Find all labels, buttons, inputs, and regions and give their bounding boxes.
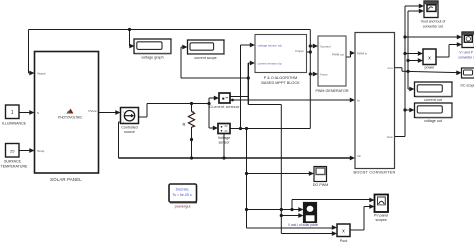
wire: Pout out to PV panel scope in2 <box>350 229 364 231</box>
svg-text:BOOST CONVERTER: BOOST CONVERTER <box>354 170 396 175</box>
converter out scope block top right <box>424 1 438 18</box>
resistor R zigzag <box>188 112 194 128</box>
wire: to PV panel scope in1 <box>292 199 370 201</box>
wire: power out to V-I-P scope in2 <box>436 56 449 58</box>
wire: P&O Vmppt output stub <box>307 51 311 53</box>
wire: vertical bus right of P&O <box>309 30 311 129</box>
svg-text:DG PWM: DG PWM <box>313 183 329 187</box>
constant block illuminance <box>6 105 20 119</box>
arrowhead into current sensor <box>214 96 219 101</box>
svg-text:sensor: sensor <box>218 141 230 145</box>
arrowhead into PV Vinput <box>29 71 34 76</box>
svg-text:voltage sensor o/p: voltage sensor o/p <box>258 43 283 47</box>
arrowhead V-I-P scope in1 <box>457 35 462 40</box>
wire: top feedback Vmppt to PV Vinput <box>29 29 311 31</box>
arrowhead into P&O in2 <box>250 61 255 66</box>
svg-text:Controlled: Controlled <box>121 125 137 129</box>
wire: west to current scope display <box>181 77 248 79</box>
node Iout joins bus <box>406 70 409 73</box>
wire: down to voltage sensor <box>208 104 210 129</box>
current sensor block <box>219 93 230 103</box>
node to power in2 <box>406 59 409 62</box>
node voltage south run <box>245 127 248 130</box>
svg-text:current sensor o/p: current sensor o/p <box>258 61 283 65</box>
svg-text:Current sensor: Current sensor <box>209 104 240 109</box>
boost converter block <box>355 33 395 169</box>
wire: PV output PVout to controlled source <box>99 112 117 114</box>
wire: voltage sensor bottom stub <box>223 134 225 159</box>
svg-text:Voltage: Voltage <box>218 136 230 140</box>
svg-text:TEMPERATURE: TEMPERATURE <box>1 164 28 168</box>
node to V-I-P scope in1 <box>403 35 406 38</box>
node to power in1 <box>403 52 406 55</box>
node to P&O in1 <box>239 127 242 130</box>
node riser to PV panel scope <box>290 208 293 211</box>
node to PWM in2 <box>309 72 312 75</box>
voltage sensor block <box>218 124 230 134</box>
wire: controlled source bottom stub to rail <box>119 121 121 123</box>
power multiplier block <box>423 49 436 65</box>
node branch voltage graph <box>128 28 131 31</box>
svg-text:DC scope: DC scope <box>461 83 474 87</box>
wire: electrical line to boost Iin <box>230 99 351 101</box>
svg-text:Temp: Temp <box>37 149 45 153</box>
node crossing dot <box>280 208 283 211</box>
svg-text:BASED MPPT BLOCK: BASED MPPT BLOCK <box>261 81 300 85</box>
arrowhead into voltage out display <box>409 108 414 113</box>
node voltage sensor bottom on rail <box>222 156 225 159</box>
svg-text:ILLUMINANCE: ILLUMINANCE <box>2 122 27 126</box>
controlled current source block <box>121 108 139 124</box>
svg-text:converter out: converter out <box>423 25 443 29</box>
DC scope display block right edge <box>462 68 474 78</box>
svg-text:Vinput: Vinput <box>37 71 46 75</box>
current scope display block <box>188 40 225 54</box>
wire: controlled source out up to node <box>139 116 148 118</box>
DG PWM scope block <box>314 167 327 182</box>
vertical bus Vout <box>404 6 406 137</box>
arrowhead converter scope in1 <box>419 4 424 9</box>
V and I of solar panel scope block <box>304 203 317 223</box>
svg-text:S: S <box>37 111 39 115</box>
svg-text:V I and P of: V I and P of <box>459 51 474 55</box>
Pout multiplier block <box>337 224 350 237</box>
arrowhead into voltage graph display <box>129 44 134 49</box>
wire: to DG PWM scope <box>247 173 310 175</box>
svg-text:R: R <box>182 122 185 127</box>
wire: boost Iout east <box>395 67 402 69</box>
arrowhead into boost Iin <box>350 98 355 103</box>
wire: current signal south run <box>248 104 281 106</box>
node branch to current scope display <box>247 76 250 79</box>
svg-text:power: power <box>424 66 435 70</box>
svg-text:Vout and Iout of: Vout and Iout of <box>421 19 446 23</box>
PV logo mark <box>68 109 74 114</box>
constant block surface temperature <box>6 144 20 158</box>
solar panel PV block <box>35 52 99 174</box>
svg-text:Pout: Pout <box>340 239 348 243</box>
svg-text:P & O ALGORITHM: P & O ALGORITHM <box>264 76 297 80</box>
svg-text:Iout: Iout <box>388 66 393 70</box>
svg-text:current scope: current scope <box>194 56 216 60</box>
vertical bus Iout <box>407 11 409 89</box>
wire: into V-I scope in2 <box>281 215 299 217</box>
node to sensors <box>207 102 210 105</box>
PWM generator block <box>318 36 346 86</box>
P&O algorithm MPPT block <box>255 35 307 73</box>
arrowhead into boost Vin <box>350 156 355 161</box>
svg-text:PV panel: PV panel <box>374 213 388 217</box>
svg-text:PWM GENERATOR: PWM GENERATOR <box>315 89 348 93</box>
node resistor top <box>190 102 193 105</box>
wire: to Pout in2 <box>281 233 332 235</box>
arrowhead PWM generator in1 <box>313 44 318 49</box>
svg-text:converter out: converter out <box>458 55 474 59</box>
svg-text:Vin: Vin <box>357 154 362 158</box>
wire: bottom electrical rail to boost Vin <box>119 157 351 159</box>
node resistor bottom port <box>190 138 193 141</box>
svg-text:Vmos: Vmos <box>320 72 328 76</box>
node branch V-I scope in1 <box>245 208 248 211</box>
node to voltage out display <box>403 108 406 111</box>
svg-text:Vcontrol: Vcontrol <box>320 44 331 48</box>
svg-text:PVout: PVout <box>88 109 96 113</box>
svg-text:voltage graph: voltage graph <box>141 55 163 59</box>
PV panel scope block <box>375 195 389 213</box>
voltage graph display block <box>134 39 171 54</box>
wire: main electrical node horizontal <box>147 103 209 105</box>
arrowhead into voltage sensor <box>213 126 218 131</box>
wire: current sensor signal to P&O in2 <box>230 96 248 98</box>
arrowhead into DC scope display <box>456 70 461 75</box>
node to PWM in1 <box>309 44 312 47</box>
svg-text:Iin: Iin <box>357 98 360 102</box>
svg-text:V and I of solar panel: V and I of solar panel <box>288 223 318 227</box>
node resistor to rail <box>190 156 193 159</box>
svg-text:scopes: scopes <box>375 218 386 222</box>
wire: into V-I scope in1 <box>247 209 300 211</box>
svg-text:Vmppt: Vmppt <box>295 49 304 53</box>
arrowhead converter scope in2 <box>419 9 424 14</box>
wire: temperature const to PV Temp <box>19 150 30 152</box>
svg-text:Discrete,: Discrete, <box>176 188 190 192</box>
V I and P of converter scope block right edge <box>462 32 474 48</box>
voltage out display block <box>415 103 453 118</box>
node branch V-I scope in2 <box>280 214 283 217</box>
wire: drop to voltage graph display <box>129 30 131 47</box>
powergui block <box>169 184 197 202</box>
wire: boost Vout east <box>395 136 405 138</box>
svg-text:current out: current out <box>424 98 442 102</box>
wire: PWM generator out to boost PWM in <box>346 56 351 58</box>
svg-text:PWM out: PWM out <box>332 53 344 57</box>
svg-text:PHOTOVOLTAIC: PHOTOVOLTAIC <box>58 115 83 119</box>
svg-text:25: 25 <box>10 148 15 153</box>
arrowhead PWM generator in2 <box>313 72 318 77</box>
svg-text:PWM in: PWM in <box>357 51 368 55</box>
arrowhead into P&O in1 <box>250 43 255 48</box>
svg-text:source: source <box>124 130 135 134</box>
svg-text:Ts = 5e-05 s.: Ts = 5e-05 s. <box>172 193 192 197</box>
svg-text:powergui: powergui <box>175 204 191 209</box>
svg-text:SURFACE: SURFACE <box>4 159 22 163</box>
svg-text:SOLAR PANEL: SOLAR PANEL <box>50 177 82 182</box>
arrowhead into current out display <box>409 87 414 92</box>
resistor R leads <box>191 104 193 112</box>
svg-text:voltage out: voltage out <box>424 119 442 123</box>
arrowhead into current scope display <box>182 45 187 50</box>
wire: illuminance const to PV S <box>19 112 30 114</box>
svg-text:Vout: Vout <box>387 135 393 139</box>
current out display block <box>415 82 453 97</box>
wire: to Pout in1 <box>247 227 333 229</box>
wire: voltage sensor output east to bus <box>230 128 310 130</box>
node branch DG PWM scope <box>245 172 248 175</box>
svg-text:1: 1 <box>11 110 14 116</box>
